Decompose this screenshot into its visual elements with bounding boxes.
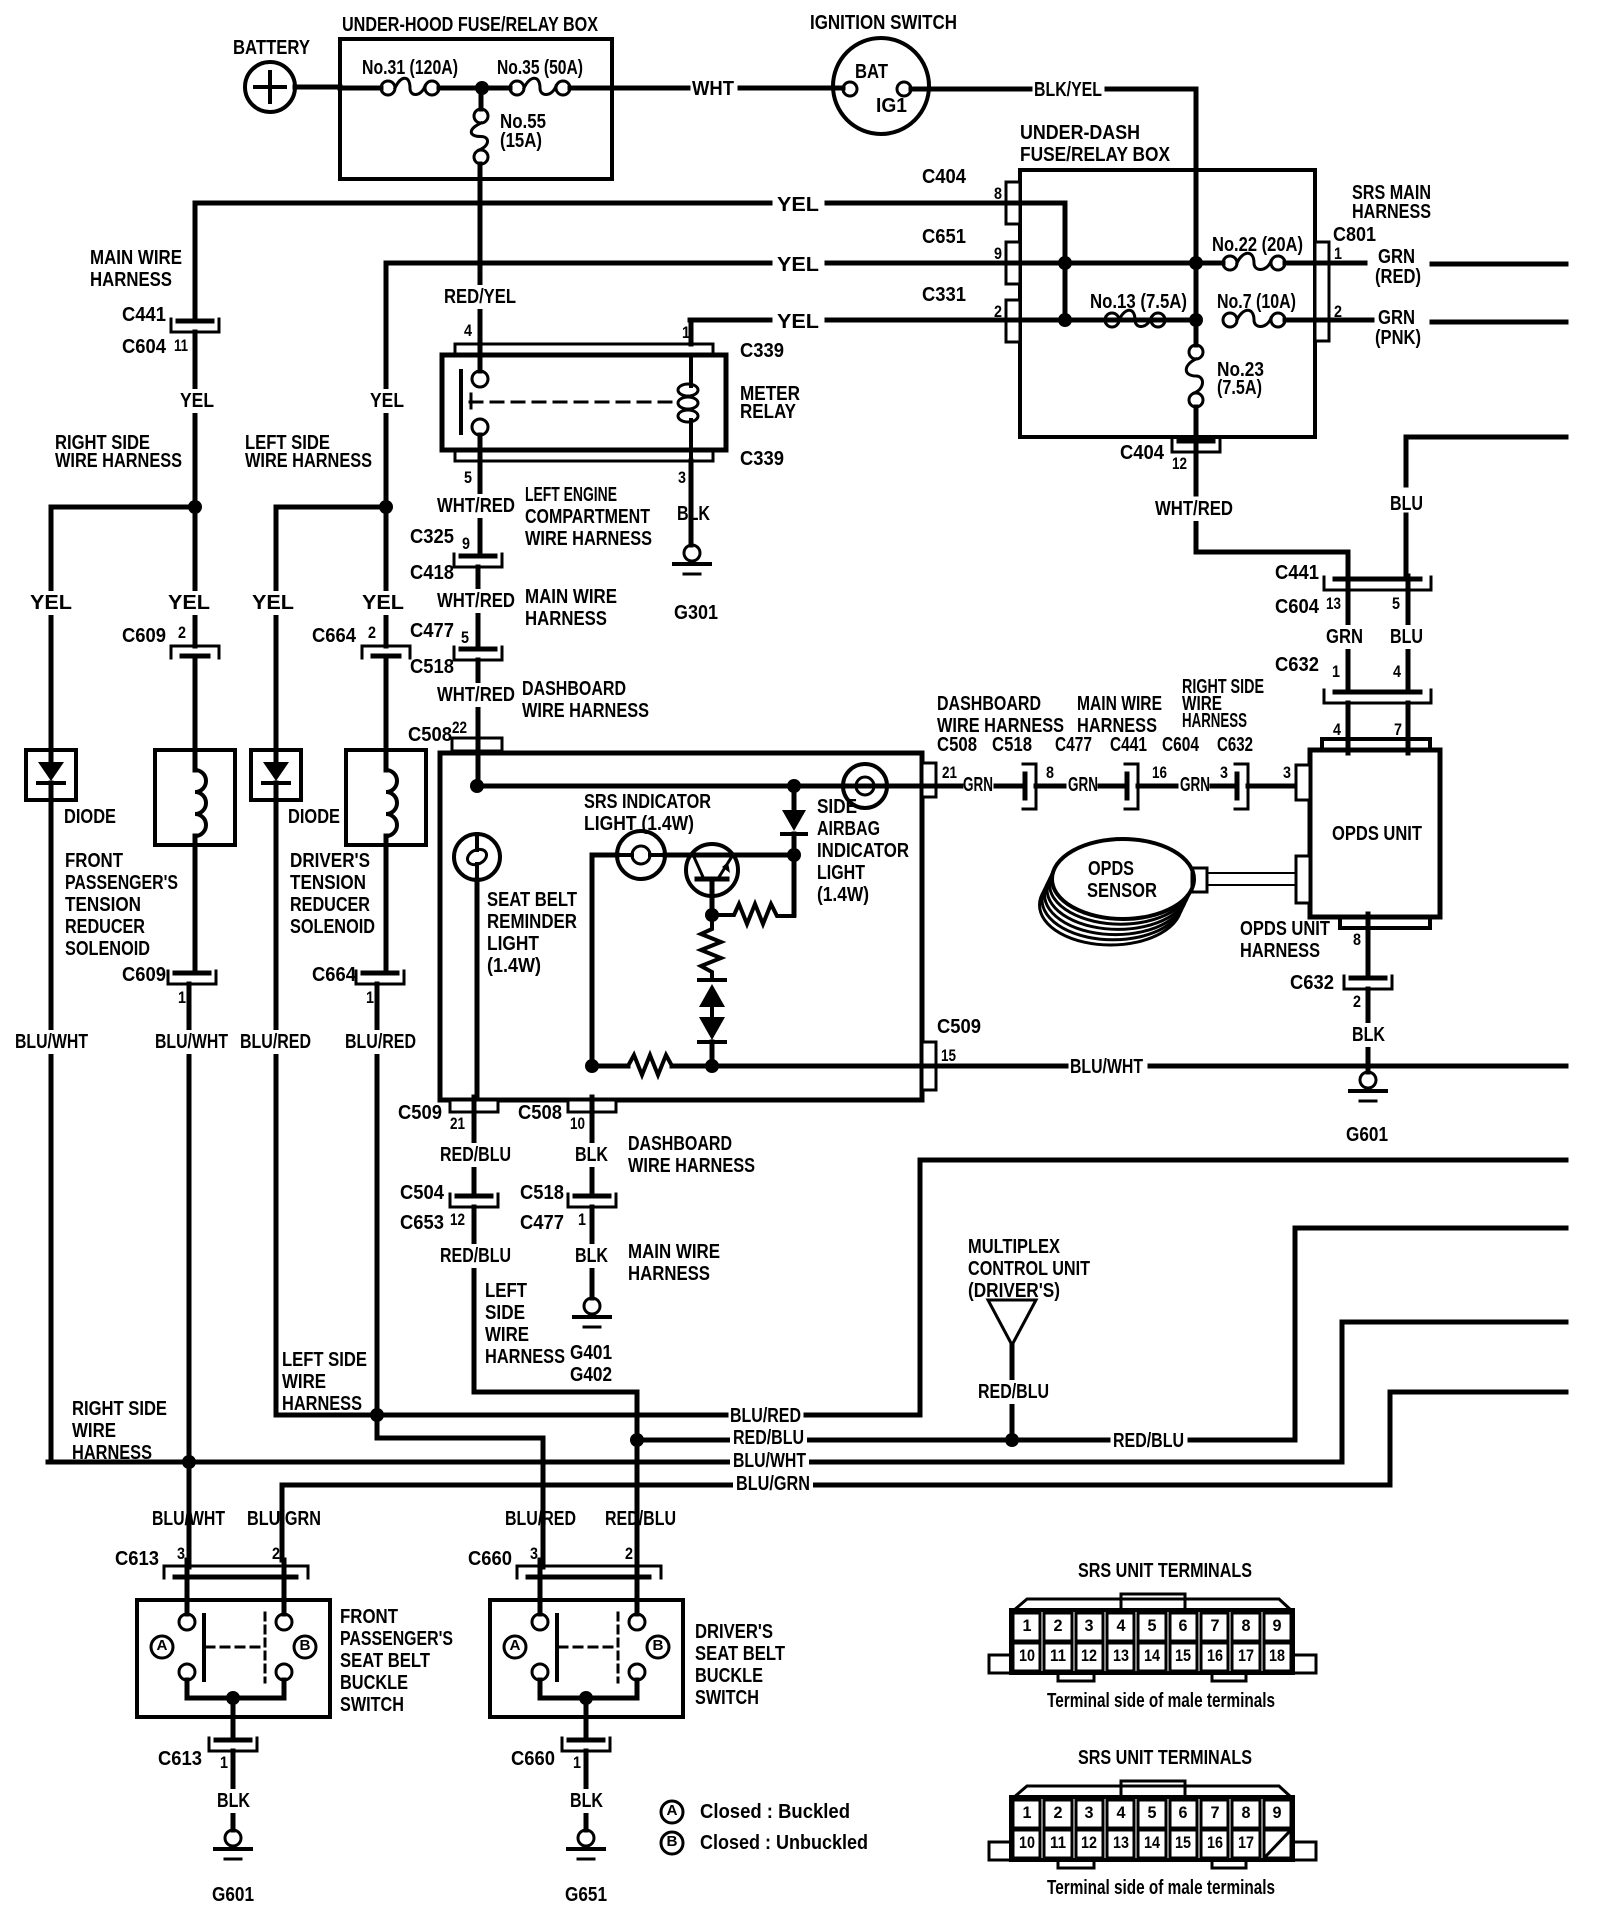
svg-text:C609: C609 bbox=[122, 964, 166, 986]
svg-text:WHT/RED: WHT/RED bbox=[437, 495, 515, 517]
svg-text:4: 4 bbox=[1117, 1616, 1127, 1635]
svg-text:6: 6 bbox=[1179, 1803, 1188, 1822]
svg-text:C441: C441 bbox=[122, 304, 166, 326]
svg-text:2: 2 bbox=[1334, 302, 1342, 321]
svg-text:BLU/GRN: BLU/GRN bbox=[247, 1508, 321, 1530]
svg-text:Closed : Unbuckled: Closed : Unbuckled bbox=[700, 1832, 868, 1854]
svg-text:BATTERY: BATTERY bbox=[233, 37, 311, 59]
svg-text:2: 2 bbox=[272, 1544, 280, 1563]
svg-text:C441: C441 bbox=[1110, 734, 1147, 756]
svg-text:8: 8 bbox=[994, 184, 1002, 203]
svg-text:C613: C613 bbox=[115, 1548, 159, 1570]
svg-text:BLU/WHT: BLU/WHT bbox=[15, 1031, 88, 1053]
svg-text:C604: C604 bbox=[122, 336, 167, 358]
svg-text:FUSE/RELAY BOX: FUSE/RELAY BOX bbox=[1020, 144, 1171, 166]
svg-text:C441: C441 bbox=[1275, 562, 1319, 584]
svg-text:5: 5 bbox=[1148, 1616, 1157, 1635]
svg-text:1: 1 bbox=[178, 988, 186, 1007]
svg-text:5: 5 bbox=[464, 468, 472, 487]
svg-text:HARNESS: HARNESS bbox=[90, 269, 172, 291]
svg-text:7: 7 bbox=[1394, 720, 1402, 739]
svg-text:C504: C504 bbox=[400, 1182, 445, 1204]
svg-text:3: 3 bbox=[678, 468, 686, 487]
svg-text:HARNESS: HARNESS bbox=[1240, 940, 1320, 962]
svg-text:12: 12 bbox=[1081, 1646, 1097, 1665]
svg-text:C518: C518 bbox=[410, 656, 454, 678]
svg-text:15: 15 bbox=[1175, 1646, 1191, 1665]
svg-text:WIRE HARNESS: WIRE HARNESS bbox=[522, 700, 649, 722]
svg-text:C651: C651 bbox=[922, 226, 966, 248]
svg-text:YEL: YEL bbox=[777, 194, 819, 216]
svg-text:3: 3 bbox=[1085, 1803, 1094, 1822]
svg-text:C508: C508 bbox=[518, 1102, 562, 1124]
svg-text:6: 6 bbox=[1179, 1616, 1188, 1635]
svg-text:RED/BLU: RED/BLU bbox=[440, 1144, 511, 1166]
svg-text:12: 12 bbox=[1081, 1833, 1097, 1852]
svg-text:C664: C664 bbox=[312, 625, 357, 647]
svg-text:BLK: BLK bbox=[575, 1245, 608, 1267]
svg-text:GRN: GRN bbox=[1180, 774, 1210, 796]
svg-text:BLU/WHT: BLU/WHT bbox=[152, 1508, 225, 1530]
svg-text:SEAT BELT: SEAT BELT bbox=[695, 1643, 785, 1665]
svg-text:1: 1 bbox=[1023, 1616, 1032, 1635]
svg-text:YEL: YEL bbox=[168, 592, 210, 614]
svg-text:HARNESS: HARNESS bbox=[628, 1263, 710, 1285]
svg-text:AIRBAG: AIRBAG bbox=[817, 818, 880, 840]
svg-text:15: 15 bbox=[1175, 1833, 1191, 1852]
svg-text:B: B bbox=[667, 1833, 678, 1850]
svg-text:C477: C477 bbox=[410, 620, 454, 642]
svg-text:BLK: BLK bbox=[677, 503, 710, 525]
svg-text:RED/BLU: RED/BLU bbox=[978, 1381, 1049, 1403]
svg-text:C613: C613 bbox=[158, 1748, 202, 1770]
svg-text:1: 1 bbox=[578, 1210, 586, 1229]
svg-text:SOLENOID: SOLENOID bbox=[290, 916, 375, 938]
svg-text:WHT/RED: WHT/RED bbox=[1155, 498, 1233, 520]
svg-text:LEFT ENGINE: LEFT ENGINE bbox=[525, 484, 617, 506]
svg-text:C660: C660 bbox=[511, 1748, 555, 1770]
svg-text:2: 2 bbox=[625, 1544, 633, 1563]
svg-text:BLU: BLU bbox=[1390, 626, 1423, 648]
svg-text:COMPARTMENT: COMPARTMENT bbox=[525, 506, 650, 528]
svg-text:G401: G401 bbox=[570, 1342, 612, 1364]
svg-text:RED/BLU: RED/BLU bbox=[733, 1427, 804, 1449]
svg-text:FRONT: FRONT bbox=[340, 1606, 398, 1628]
svg-text:21: 21 bbox=[450, 1114, 465, 1133]
svg-text:OPDS UNIT: OPDS UNIT bbox=[1332, 823, 1422, 845]
svg-text:YEL: YEL bbox=[362, 592, 404, 614]
svg-text:1: 1 bbox=[366, 988, 374, 1007]
svg-text:18: 18 bbox=[1269, 1646, 1285, 1665]
svg-text:2: 2 bbox=[368, 623, 376, 642]
svg-text:Terminal side of male terminal: Terminal side of male terminals bbox=[1047, 1690, 1275, 1712]
svg-text:RED/BLU: RED/BLU bbox=[440, 1245, 511, 1267]
svg-text:No.22 (20A): No.22 (20A) bbox=[1212, 234, 1303, 256]
svg-text:7: 7 bbox=[1211, 1616, 1220, 1635]
svg-text:9: 9 bbox=[994, 244, 1002, 263]
svg-text:1: 1 bbox=[1334, 244, 1342, 263]
svg-text:17: 17 bbox=[1238, 1646, 1254, 1665]
svg-text:C404: C404 bbox=[1120, 442, 1165, 464]
svg-text:LEFT SIDE: LEFT SIDE bbox=[282, 1349, 367, 1371]
svg-text:HARNESS: HARNESS bbox=[1352, 201, 1431, 223]
svg-text:WIRE: WIRE bbox=[282, 1371, 326, 1393]
svg-text:SEAT BELT: SEAT BELT bbox=[487, 889, 577, 911]
svg-text:10: 10 bbox=[1019, 1833, 1035, 1852]
svg-text:HARNESS: HARNESS bbox=[282, 1393, 362, 1415]
svg-text:Closed : Buckled: Closed : Buckled bbox=[700, 1801, 850, 1823]
svg-text:WHT: WHT bbox=[692, 78, 734, 100]
svg-text:DRIVER'S: DRIVER'S bbox=[290, 850, 370, 872]
svg-text:MAIN WIRE: MAIN WIRE bbox=[628, 1241, 720, 1263]
svg-text:15: 15 bbox=[941, 1046, 956, 1065]
svg-text:BAT: BAT bbox=[855, 61, 888, 83]
svg-text:16: 16 bbox=[1207, 1646, 1223, 1665]
svg-text:LIGHT (1.4W): LIGHT (1.4W) bbox=[584, 813, 694, 835]
svg-text:C664: C664 bbox=[312, 964, 357, 986]
svg-text:TENSION: TENSION bbox=[65, 894, 141, 916]
svg-text:BLK: BLK bbox=[570, 1790, 603, 1812]
svg-text:HARNESS: HARNESS bbox=[525, 608, 607, 630]
svg-text:YEL: YEL bbox=[777, 254, 819, 276]
svg-text:IGNITION SWITCH: IGNITION SWITCH bbox=[810, 12, 957, 34]
svg-text:4: 4 bbox=[1393, 662, 1401, 681]
svg-text:BLU/WHT: BLU/WHT bbox=[1070, 1056, 1143, 1078]
svg-text:No.31 (120A): No.31 (120A) bbox=[362, 57, 458, 79]
svg-text:GRN: GRN bbox=[1068, 774, 1098, 796]
svg-text:LIGHT: LIGHT bbox=[487, 933, 539, 955]
svg-text:C509: C509 bbox=[937, 1016, 981, 1038]
svg-text:21: 21 bbox=[942, 763, 957, 782]
svg-text:HARNESS: HARNESS bbox=[1182, 710, 1247, 732]
svg-text:3: 3 bbox=[1220, 763, 1228, 782]
svg-text:BLU/RED: BLU/RED bbox=[240, 1031, 311, 1053]
svg-text:C632: C632 bbox=[1275, 654, 1319, 676]
svg-text:2: 2 bbox=[1054, 1803, 1063, 1822]
svg-text:RED/BLU: RED/BLU bbox=[605, 1508, 676, 1530]
svg-text:OPDS: OPDS bbox=[1088, 858, 1134, 880]
svg-text:10: 10 bbox=[1019, 1646, 1035, 1665]
svg-text:BLU/RED: BLU/RED bbox=[505, 1508, 576, 1530]
svg-text:3: 3 bbox=[1085, 1616, 1094, 1635]
svg-text:SRS INDICATOR: SRS INDICATOR bbox=[584, 791, 711, 813]
svg-text:YEL: YEL bbox=[30, 592, 72, 614]
svg-text:C801: C801 bbox=[1333, 224, 1376, 246]
svg-text:PASSENGER'S: PASSENGER'S bbox=[65, 872, 178, 894]
svg-text:MAIN WIRE: MAIN WIRE bbox=[1077, 693, 1162, 715]
svg-text:1: 1 bbox=[682, 323, 690, 342]
svg-text:16: 16 bbox=[1152, 763, 1167, 782]
svg-text:C660: C660 bbox=[468, 1548, 512, 1570]
svg-text:(1.4W): (1.4W) bbox=[487, 955, 541, 977]
svg-text:DASHBOARD: DASHBOARD bbox=[628, 1133, 732, 1155]
svg-text:4: 4 bbox=[1117, 1803, 1127, 1822]
svg-text:C331: C331 bbox=[922, 284, 966, 306]
svg-text:8: 8 bbox=[1242, 1616, 1251, 1635]
svg-text:3: 3 bbox=[530, 1544, 538, 1563]
svg-text:YEL: YEL bbox=[370, 390, 404, 412]
svg-text:SENSOR: SENSOR bbox=[1087, 880, 1157, 902]
svg-text:8: 8 bbox=[1242, 1803, 1251, 1822]
svg-text:(DRIVER'S): (DRIVER'S) bbox=[968, 1280, 1060, 1302]
svg-text:C604: C604 bbox=[1275, 596, 1320, 618]
svg-text:HARNESS: HARNESS bbox=[72, 1442, 152, 1464]
svg-text:C404: C404 bbox=[922, 166, 967, 188]
svg-text:13: 13 bbox=[1113, 1833, 1129, 1852]
svg-text:WIRE: WIRE bbox=[485, 1324, 529, 1346]
svg-text:(RED): (RED) bbox=[1375, 266, 1421, 288]
svg-text:16: 16 bbox=[1207, 1833, 1223, 1852]
svg-text:A: A bbox=[510, 1637, 521, 1654]
svg-text:GRN: GRN bbox=[963, 774, 993, 796]
svg-text:FRONT: FRONT bbox=[65, 850, 123, 872]
svg-text:3: 3 bbox=[1283, 763, 1291, 782]
svg-text:14: 14 bbox=[1144, 1646, 1160, 1665]
svg-text:C518: C518 bbox=[520, 1182, 564, 1204]
svg-text:DASHBOARD: DASHBOARD bbox=[522, 678, 626, 700]
svg-text:YEL: YEL bbox=[252, 592, 294, 614]
svg-text:DASHBOARD: DASHBOARD bbox=[937, 693, 1041, 715]
svg-text:7: 7 bbox=[1211, 1803, 1220, 1822]
svg-text:SIDE: SIDE bbox=[817, 796, 857, 818]
svg-text:LIGHT: LIGHT bbox=[817, 862, 865, 884]
svg-text:C609: C609 bbox=[122, 625, 166, 647]
svg-text:DIODE: DIODE bbox=[64, 806, 116, 828]
svg-text:SWITCH: SWITCH bbox=[340, 1694, 404, 1716]
svg-text:GRN: GRN bbox=[1378, 246, 1415, 268]
svg-text:10: 10 bbox=[570, 1114, 585, 1133]
svg-text:GRN: GRN bbox=[1326, 626, 1363, 648]
svg-text:SOLENOID: SOLENOID bbox=[65, 938, 150, 960]
svg-text:C477: C477 bbox=[520, 1212, 564, 1234]
svg-text:INDICATOR: INDICATOR bbox=[817, 840, 909, 862]
svg-text:SRS UNIT TERMINALS: SRS UNIT TERMINALS bbox=[1078, 1560, 1252, 1582]
svg-text:17: 17 bbox=[1238, 1833, 1254, 1852]
svg-text:OPDS UNIT: OPDS UNIT bbox=[1240, 918, 1330, 940]
svg-text:C508: C508 bbox=[408, 724, 452, 746]
svg-text:5: 5 bbox=[1148, 1803, 1157, 1822]
svg-text:RED/BLU: RED/BLU bbox=[1113, 1430, 1184, 1452]
svg-text:C518: C518 bbox=[992, 734, 1032, 756]
svg-text:GRN: GRN bbox=[1378, 307, 1415, 329]
svg-text:C632: C632 bbox=[1290, 972, 1334, 994]
svg-text:12: 12 bbox=[450, 1210, 465, 1229]
svg-text:No.7 (10A): No.7 (10A) bbox=[1217, 291, 1296, 313]
svg-text:8: 8 bbox=[1046, 763, 1054, 782]
svg-text:8: 8 bbox=[1353, 930, 1361, 949]
svg-text:MAIN WIRE: MAIN WIRE bbox=[90, 247, 182, 269]
svg-text:13: 13 bbox=[1113, 1646, 1129, 1665]
svg-text:C325: C325 bbox=[410, 526, 454, 548]
svg-text:WIRE HARNESS: WIRE HARNESS bbox=[525, 528, 652, 550]
svg-text:UNDER-DASH: UNDER-DASH bbox=[1020, 122, 1140, 144]
svg-text:WHT/RED: WHT/RED bbox=[437, 590, 515, 612]
svg-text:3: 3 bbox=[177, 1544, 185, 1563]
svg-text:BLK/YEL: BLK/YEL bbox=[1034, 79, 1102, 101]
svg-text:SIDE: SIDE bbox=[485, 1302, 525, 1324]
svg-text:MAIN WIRE: MAIN WIRE bbox=[525, 586, 617, 608]
svg-text:BLK: BLK bbox=[217, 1790, 250, 1812]
svg-text:YEL: YEL bbox=[777, 311, 819, 333]
svg-text:BLU/GRN: BLU/GRN bbox=[736, 1473, 810, 1495]
svg-text:C508: C508 bbox=[937, 734, 977, 756]
svg-text:C477: C477 bbox=[1055, 734, 1092, 756]
svg-text:REDUCER: REDUCER bbox=[290, 894, 370, 916]
svg-text:C418: C418 bbox=[410, 562, 454, 584]
svg-text:RELAY: RELAY bbox=[740, 401, 797, 423]
svg-text:PASSENGER'S: PASSENGER'S bbox=[340, 1628, 453, 1650]
svg-text:CONTROL UNIT: CONTROL UNIT bbox=[968, 1258, 1090, 1280]
svg-text:9: 9 bbox=[1273, 1616, 1282, 1635]
svg-text:G301: G301 bbox=[674, 602, 718, 624]
svg-text:4: 4 bbox=[1333, 720, 1341, 739]
svg-text:(7.5A): (7.5A) bbox=[1217, 377, 1262, 399]
svg-text:RIGHT SIDE: RIGHT SIDE bbox=[72, 1398, 167, 1420]
svg-text:C632: C632 bbox=[1217, 734, 1253, 756]
svg-text:BLK: BLK bbox=[1352, 1024, 1385, 1046]
svg-text:11: 11 bbox=[1050, 1833, 1066, 1852]
svg-text:C509: C509 bbox=[398, 1102, 442, 1124]
svg-text:5: 5 bbox=[1392, 594, 1400, 613]
svg-text:BLU/WHT: BLU/WHT bbox=[733, 1450, 806, 1472]
svg-text:A: A bbox=[157, 1637, 168, 1654]
svg-text:BUCKLE: BUCKLE bbox=[695, 1665, 763, 1687]
svg-text:REDUCER: REDUCER bbox=[65, 916, 145, 938]
svg-text:IG1: IG1 bbox=[876, 95, 907, 117]
svg-text:C339: C339 bbox=[740, 340, 784, 362]
svg-text:2: 2 bbox=[1353, 992, 1361, 1011]
svg-text:BLU: BLU bbox=[1390, 493, 1423, 515]
svg-text:REMINDER: REMINDER bbox=[487, 911, 577, 933]
svg-text:1: 1 bbox=[573, 1753, 581, 1772]
svg-text:MULTIPLEX: MULTIPLEX bbox=[968, 1236, 1061, 1258]
svg-text:WIRE HARNESS: WIRE HARNESS bbox=[245, 450, 372, 472]
svg-text:(15A): (15A) bbox=[500, 130, 542, 152]
svg-text:9: 9 bbox=[462, 534, 470, 553]
svg-text:(1.4W): (1.4W) bbox=[817, 884, 869, 906]
svg-text:22: 22 bbox=[452, 718, 467, 737]
svg-text:YEL: YEL bbox=[180, 390, 214, 412]
svg-text:11: 11 bbox=[174, 336, 188, 355]
svg-text:No.35 (50A): No.35 (50A) bbox=[497, 57, 583, 79]
svg-text:2: 2 bbox=[1054, 1616, 1063, 1635]
svg-text:5: 5 bbox=[461, 628, 469, 647]
svg-text:WIRE: WIRE bbox=[72, 1420, 116, 1442]
svg-text:SEAT BELT: SEAT BELT bbox=[340, 1650, 430, 1672]
svg-text:BLU/RED: BLU/RED bbox=[730, 1405, 801, 1427]
svg-text:WHT/RED: WHT/RED bbox=[437, 684, 515, 706]
svg-text:LEFT: LEFT bbox=[485, 1280, 527, 1302]
svg-text:1: 1 bbox=[220, 1753, 228, 1772]
svg-text:BLU/WHT: BLU/WHT bbox=[155, 1031, 228, 1053]
svg-text:2: 2 bbox=[178, 623, 186, 642]
svg-text:DRIVER'S: DRIVER'S bbox=[695, 1621, 773, 1643]
svg-text:11: 11 bbox=[1050, 1646, 1066, 1665]
svg-text:TENSION: TENSION bbox=[290, 872, 366, 894]
svg-text:B: B bbox=[653, 1637, 664, 1654]
svg-text:C604: C604 bbox=[1162, 734, 1200, 756]
svg-text:12: 12 bbox=[1172, 454, 1187, 473]
svg-text:B: B bbox=[300, 1637, 311, 1654]
svg-text:BLU/RED: BLU/RED bbox=[345, 1031, 416, 1053]
svg-text:(PNK): (PNK) bbox=[1375, 327, 1421, 349]
svg-text:G402: G402 bbox=[570, 1364, 612, 1386]
svg-text:2: 2 bbox=[994, 302, 1002, 321]
svg-text:Terminal side of male terminal: Terminal side of male terminals bbox=[1047, 1877, 1275, 1899]
svg-text:SWITCH: SWITCH bbox=[695, 1687, 759, 1709]
svg-text:C339: C339 bbox=[740, 448, 784, 470]
svg-text:4: 4 bbox=[464, 321, 472, 340]
svg-text:G601: G601 bbox=[1346, 1124, 1388, 1146]
svg-text:13: 13 bbox=[1326, 594, 1341, 613]
svg-text:A: A bbox=[667, 1802, 678, 1819]
svg-text:RED/YEL: RED/YEL bbox=[444, 286, 516, 308]
svg-text:WIRE HARNESS: WIRE HARNESS bbox=[55, 450, 182, 472]
svg-text:WIRE HARNESS: WIRE HARNESS bbox=[628, 1155, 755, 1177]
svg-text:C653: C653 bbox=[400, 1212, 444, 1234]
svg-text:1: 1 bbox=[1332, 662, 1340, 681]
svg-text:1: 1 bbox=[1023, 1803, 1032, 1822]
svg-text:G651: G651 bbox=[565, 1884, 607, 1906]
svg-text:SRS UNIT TERMINALS: SRS UNIT TERMINALS bbox=[1078, 1747, 1252, 1769]
svg-text:DIODE: DIODE bbox=[288, 806, 340, 828]
svg-text:14: 14 bbox=[1144, 1833, 1160, 1852]
svg-text:G601: G601 bbox=[212, 1884, 254, 1906]
svg-text:BUCKLE: BUCKLE bbox=[340, 1672, 408, 1694]
svg-text:No.13 (7.5A): No.13 (7.5A) bbox=[1090, 291, 1187, 313]
svg-text:9: 9 bbox=[1273, 1803, 1282, 1822]
svg-text:UNDER-HOOD FUSE/RELAY BOX: UNDER-HOOD FUSE/RELAY BOX bbox=[342, 14, 599, 36]
svg-text:BLK: BLK bbox=[575, 1144, 608, 1166]
svg-text:HARNESS: HARNESS bbox=[485, 1346, 565, 1368]
